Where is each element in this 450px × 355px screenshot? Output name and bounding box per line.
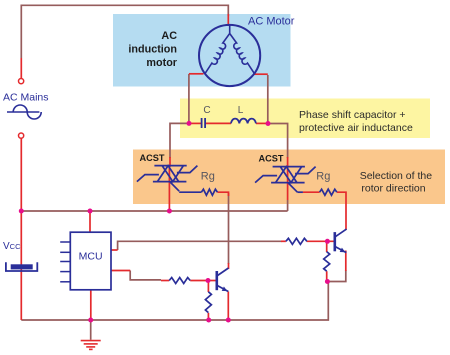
svg-text:Rg: Rg	[316, 171, 330, 183]
wire Q2 emitter red	[345, 251, 347, 272]
node A junction dot	[187, 121, 192, 126]
wire ACST1 vertical red	[168, 157, 171, 211]
resistor Rg2	[320, 189, 337, 195]
svg-text:protective air inductance: protective air inductance	[299, 122, 413, 134]
wire C to L	[206, 122, 232, 124]
wire Q1 base resistor right stub	[190, 280, 208, 282]
wire node A to capacitor C	[189, 122, 201, 124]
node bottom-ground junction dot	[88, 318, 93, 323]
AC mains sine source symbol	[7, 105, 41, 119]
node B junction dot	[266, 121, 271, 126]
svg-text:ACST: ACST	[140, 153, 165, 163]
node Q2 base junction dot	[325, 239, 330, 244]
wire ACST2 bottom to main bus	[287, 200, 289, 211]
wire Q1 pulldown resistor stubs	[207, 282, 209, 292]
svg-text:AC Mains: AC Mains	[3, 92, 49, 104]
AC mains top terminal	[19, 79, 24, 84]
resistor R1 (Q1 base series)	[169, 278, 190, 284]
svg-text:AC Motor: AC Motor	[248, 15, 295, 27]
node bottom-Q1e junction dot	[226, 318, 231, 323]
svg-text:Selection of the: Selection of the	[360, 170, 433, 182]
transistor Q1 (left NPN)	[217, 268, 229, 292]
ACST U1 gate lead	[179, 191, 201, 193]
svg-text:rotor direction: rotor direction	[361, 183, 425, 195]
svg-text:MCU: MCU	[79, 251, 103, 263]
node bottom-R2 junction dot	[206, 318, 211, 323]
ACST U2 (right triac)	[255, 167, 316, 193]
svg-text:C: C	[203, 105, 210, 116]
wire bottom bus	[21, 282, 328, 321]
wire motor left stub down to node A	[188, 74, 190, 122]
ACST U1 (left triac)	[137, 166, 198, 192]
wire Rg2 left red	[303, 191, 320, 193]
wire top run from AC mains to motor (maroon)	[21, 5, 228, 58]
wire Q2 base resistor left stub	[281, 240, 286, 242]
wire Q1 base stub	[208, 280, 216, 282]
wire MCU pin to left transistor base	[130, 271, 161, 280]
capacitor C plates	[202, 118, 206, 128]
wire node B right and down to ACST2	[269, 124, 288, 159]
wire motor top lead red	[227, 14, 229, 26]
orange highlight box (rotor direction)	[133, 150, 445, 205]
node bus-MCU junction dot	[88, 209, 93, 214]
wire Q2 pulldown resistor stubs	[326, 243, 328, 252]
wire AC mains top lead (red)	[20, 58, 22, 78]
wire AC mains bottom lead to bus and Vcc rail	[20, 138, 22, 320]
wire motor right stub red	[253, 73, 268, 75]
wire MCU pin to right transistor base	[118, 241, 282, 250]
blue highlight box (AC motor)	[113, 14, 291, 87]
resistor R4 (Q2 base pulldown, vertical)	[324, 252, 330, 271]
svg-text:Phase shift capacitor +: Phase shift capacitor +	[299, 109, 406, 121]
svg-text:ACST: ACST	[259, 153, 284, 163]
yellow highlight box (phase shift capacitor)	[180, 99, 430, 139]
wire Q1 base resistor left stub	[161, 280, 169, 282]
node bus-ACST1 junction dot	[167, 209, 172, 214]
svg-text:induction: induction	[128, 44, 177, 56]
ground	[81, 341, 101, 350]
wire Rg1 to Q1 collector	[228, 193, 230, 264]
resistor R2 (Q1 base pulldown, vertical)	[205, 292, 211, 313]
svg-text:motor: motor	[146, 57, 177, 69]
svg-text:L: L	[238, 105, 244, 116]
wire L to node B	[256, 122, 268, 124]
wire Rg2 right red to Q2 collector	[337, 192, 346, 230]
node Q1 base junction dot	[206, 278, 211, 283]
wire node A left and down to ACST1	[170, 123, 187, 158]
resistor Rg1	[201, 189, 217, 195]
svg-text:AC: AC	[161, 30, 177, 42]
wire Q1 collector red	[228, 263, 230, 269]
Vcc supply symbol (cell)	[6, 262, 37, 271]
ACST U2 gate lead	[297, 191, 303, 193]
wire MCU bottom pin	[90, 290, 92, 320]
wire Q2 emitter to bottom node	[327, 270, 345, 282]
MCU U3 box	[70, 232, 111, 290]
motor winding left arm	[205, 25, 230, 74]
wire ground stub	[90, 320, 92, 340]
MCU left pins	[60, 242, 70, 282]
node Q2 emitter junction dot	[325, 279, 330, 284]
node bus-left junction dot	[19, 209, 24, 214]
wire ACST2 vertical red	[287, 157, 289, 200]
motor winding right arm	[230, 34, 255, 74]
wire Q2 base resistor right to base node	[307, 240, 334, 242]
AC mains bottom terminal	[19, 133, 24, 138]
wire main middle bus	[21, 210, 287, 212]
wire MCU right stub 1	[111, 249, 118, 251]
svg-text:VCC: VCC	[3, 241, 21, 252]
wire MCU right stub 2	[111, 270, 130, 272]
wire motor right stub down to node B	[267, 75, 269, 122]
wire Q1 emitter red down to bus	[227, 292, 229, 320]
motor circle M	[199, 25, 260, 86]
wire MCU top pin	[89, 211, 91, 232]
resistor R3 (Q2 base series)	[286, 238, 307, 244]
transistor Q2 (right NPN)	[335, 229, 347, 253]
wire Rg1 right red to corner	[217, 192, 228, 196]
svg-text:Rg: Rg	[201, 171, 215, 183]
wire motor left stub red	[189, 73, 204, 75]
inductor L	[231, 119, 256, 124]
